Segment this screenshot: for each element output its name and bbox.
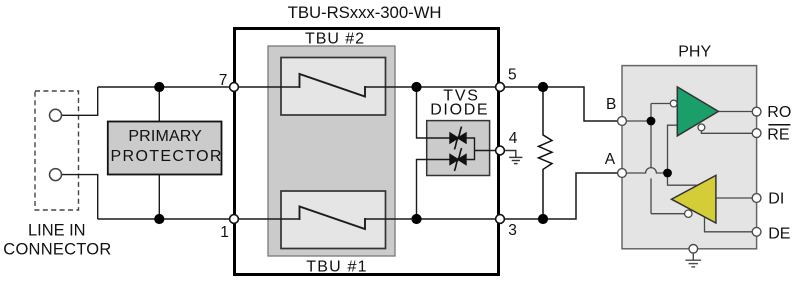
wire: TVS top tap: [417, 87, 451, 138]
junction: resistor bottom: [538, 214, 548, 224]
svg-text:PROTECTOR: PROTECTOR: [111, 148, 222, 165]
wire: primary protector bottom lead: [158, 175, 160, 220]
driver amplifier (yellow): [672, 175, 716, 223]
TBU T2 inner box: [281, 58, 386, 116]
TBU #2 fuse element: [299, 74, 366, 97]
wire: DI input: [716, 197, 752, 199]
wire: receiver non-inverting input: [668, 125, 678, 173]
svg-text:RE: RE: [767, 127, 789, 144]
pin 4: [496, 146, 505, 155]
PHY box: [622, 66, 757, 249]
svg-text:5: 5: [508, 67, 517, 84]
wire: A line with crossover hop: [626, 168, 668, 173]
svg-text:TBU #1: TBU #1: [306, 258, 366, 275]
svg-text:TBU-RSxxx-300-WH: TBU-RSxxx-300-WH: [288, 3, 442, 22]
ground at PHY: [685, 253, 701, 267]
svg-text:PRIMARY: PRIMARY: [128, 128, 202, 145]
PHY internal wires: [626, 104, 752, 232]
terminal: line-in top: [50, 109, 62, 121]
wire: driver output to B: [651, 213, 685, 215]
terminal: RE (active low): [752, 129, 761, 138]
junction: TVS top: [411, 82, 421, 92]
TBU #1 fuse element: [299, 207, 366, 230]
svg-text:DI: DI: [768, 191, 784, 208]
svg-text:B: B: [606, 96, 616, 113]
wire: B vertical (upper): [650, 104, 652, 168]
svg-text:4: 4: [509, 130, 518, 147]
terminal: B: [618, 117, 627, 126]
TVS diode D2 (bidirectional): [450, 148, 466, 171]
wire: driver output to A: [668, 173, 699, 185]
wire: RE enable: [701, 131, 752, 134]
TBU T1 inner box: [281, 191, 386, 249]
termination resistor: [539, 87, 553, 219]
terminal: A: [618, 169, 627, 178]
line-in connector dashed box: [35, 91, 79, 210]
junction: protector top: [154, 82, 164, 92]
terminal: RO: [752, 107, 761, 116]
bubble: receiver inverting input: [670, 100, 677, 107]
TBU module body: [268, 46, 395, 256]
svg-text:3: 3: [508, 222, 517, 239]
wire: top rail (B line): [98, 87, 622, 121]
wire: DE enable: [705, 218, 753, 232]
pin 3: [496, 215, 505, 224]
terminal: DE: [752, 227, 761, 236]
junction: TVS bottom: [411, 214, 421, 224]
pin 1: [230, 215, 239, 224]
bubble: receiver enable (RE): [698, 124, 705, 131]
pin 5: [496, 83, 505, 92]
wire: TVS bottom tap: [417, 160, 451, 220]
wire: bottom line-in terminal to bottom rail: [62, 175, 98, 219]
TVS diode box: [427, 121, 490, 176]
wire: top line-in terminal to top rail: [62, 87, 98, 115]
svg-text:DIODE: DIODE: [430, 102, 487, 119]
wire: TVS output bracket to pin 4: [466, 138, 500, 160]
bubble: driver inverting output: [685, 210, 692, 217]
TVS diode D1 (bidirectional): [450, 127, 466, 150]
svg-text:PHY: PHY: [678, 44, 711, 61]
wire: RO output: [718, 111, 752, 113]
svg-text:7: 7: [219, 72, 228, 89]
terminal: line-in bottom: [50, 169, 62, 181]
primary protector box: [108, 122, 222, 175]
overbar of RE: [768, 124, 790, 126]
terminal: PHY ground: [689, 245, 698, 254]
junction: resistor top: [538, 82, 548, 92]
wire: bottom rail (A line): [98, 173, 622, 219]
wire: B vertical (lower): [650, 178, 652, 213]
svg-text:TBU #2: TBU #2: [305, 30, 364, 47]
junction: B node: [647, 117, 656, 126]
module box TBU-RSxxx-300-WH: [235, 29, 499, 275]
junction: protector bottom: [154, 214, 164, 224]
wire: primary protector top lead: [158, 87, 160, 122]
svg-text:A: A: [605, 151, 616, 168]
terminal: DI: [752, 194, 761, 203]
svg-text:LINE IN: LINE IN: [28, 222, 86, 240]
ground at pin 4: [505, 151, 523, 164]
svg-text:1: 1: [220, 224, 229, 241]
svg-text:RO: RO: [767, 104, 791, 121]
wire: B line into PHY: [626, 120, 651, 122]
pin 7: [230, 83, 239, 92]
junction: A node: [663, 169, 672, 178]
wire: receiver inverting input: [651, 103, 670, 105]
svg-text:DE: DE: [768, 225, 790, 242]
receiver amplifier (green): [677, 87, 718, 136]
svg-text:CONNECTOR: CONNECTOR: [3, 240, 111, 258]
